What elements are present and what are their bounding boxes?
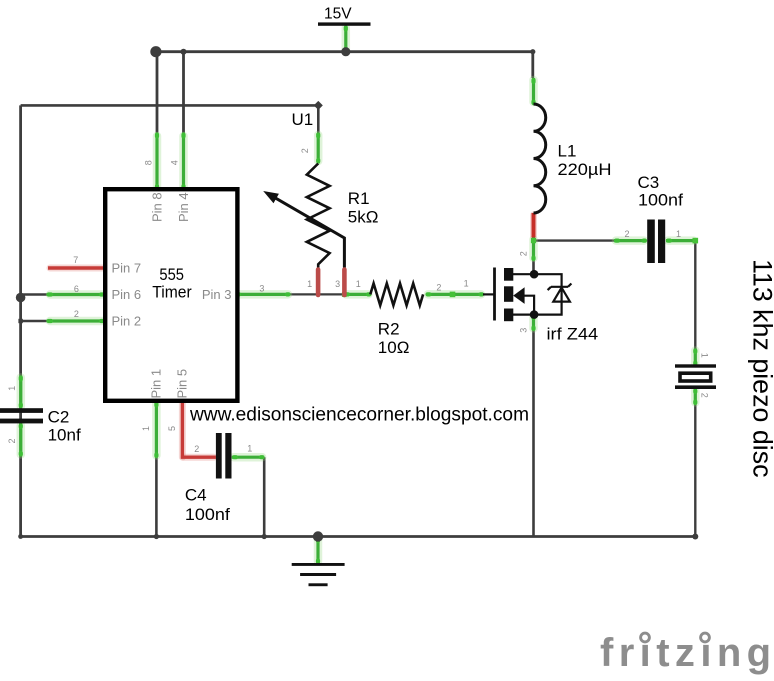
junction dot C4 bottom — [262, 534, 267, 539]
svg-text:fritzing: fritzing — [600, 631, 774, 675]
svg-text:1: 1 — [700, 353, 710, 358]
wire bottom ground bus — [21, 535, 696, 538]
svg-text:1: 1 — [307, 279, 312, 289]
wire number 1 (piezo, rotated) — [700, 353, 710, 358]
svg-text:2: 2 — [436, 283, 441, 293]
green junction square R2-gate — [450, 292, 456, 298]
wire number 4 (rotated) — [169, 160, 179, 165]
wire top bus from pin8 junction to L1 corner — [156, 52, 533, 78]
wire number 1 (C3 right) — [676, 229, 681, 239]
svg-text:10Ω: 10Ω — [378, 338, 410, 357]
svg-text:10nf: 10nf — [48, 426, 81, 445]
pin label Pin 5 — [175, 369, 190, 399]
wire number 2 (C4 left) — [194, 444, 199, 454]
svg-text:100nf: 100nf — [185, 505, 230, 524]
green junction square pot pin3 — [342, 292, 347, 297]
wire left vertical rail — [19, 105, 22, 536]
ground symbol — [292, 563, 345, 586]
wire MOSFET source lower vertical — [532, 329, 535, 537]
svg-text:C4: C4 — [185, 486, 207, 505]
svg-text:15V: 15V — [324, 5, 352, 22]
svg-text:4: 4 — [169, 160, 179, 165]
junction dot ground — [313, 531, 323, 541]
svg-text:2: 2 — [700, 393, 710, 398]
wire pin 6 tap — [21, 293, 48, 295]
svg-text:7: 7 — [73, 255, 78, 265]
wire green C3 left — [614, 239, 646, 242]
wire number 1 (C2 top, rotated) — [7, 386, 17, 391]
svg-text:L1: L1 — [558, 142, 577, 161]
C3 value label — [638, 173, 684, 210]
wire pin 4 vertical drop — [182, 52, 185, 134]
wire green C3 right — [666, 239, 695, 242]
svg-text:555: 555 — [159, 265, 184, 284]
pin label Pin 8 — [149, 192, 164, 222]
svg-text:1: 1 — [356, 279, 361, 289]
svg-text:2: 2 — [624, 229, 629, 239]
wire number 3 (pot pin3) — [335, 279, 340, 289]
svg-text:113 khz piezo disc: 113 khz piezo disc — [748, 259, 774, 478]
MOSFET Q1 body diode (zener) — [548, 284, 572, 302]
wire number 5 (555 pin5, rotated) — [167, 426, 177, 431]
wire drain upper dark segment — [532, 260, 535, 272]
C2 value label — [48, 408, 81, 445]
wire number 1 (C4 right) — [247, 444, 252, 454]
power symbol 15V — [318, 5, 371, 26]
svg-text:Pin 8: Pin 8 — [149, 192, 164, 222]
MOSFET Q1 label — [547, 325, 599, 344]
pin label Pin 2 — [112, 314, 142, 329]
svg-text:1: 1 — [7, 386, 17, 391]
svg-text:5: 5 — [167, 426, 177, 431]
wire green U1 pin 2 — [317, 133, 320, 164]
svg-text:R2: R2 — [378, 320, 400, 339]
svg-text:2: 2 — [194, 444, 199, 454]
junction dot bottom-left corner — [18, 534, 23, 539]
wire number 2 (C3 left) — [624, 229, 629, 239]
svg-text:www.edisonsciencecorner.blogsp: www.edisonsciencecorner.blogspot.com — [189, 405, 529, 426]
green junction square C3 corner — [693, 238, 699, 244]
wire number 7 — [73, 255, 78, 265]
svg-text:Timer: Timer — [152, 283, 192, 302]
wire number 3 (pin3) — [259, 284, 264, 294]
MOSFET Q1 drain node dot — [530, 270, 539, 279]
wire pin3 to pot middle segment — [290, 293, 347, 295]
wire number 1 (pot pin1) — [307, 279, 312, 289]
pin label Pin 1 — [149, 369, 164, 399]
piezo disc crystal symbol — [675, 364, 716, 389]
wire green R2 to gate — [426, 293, 483, 296]
potentiometer R1 pin1 red stub — [316, 270, 321, 296]
svg-text:3: 3 — [335, 279, 340, 289]
svg-text:U1: U1 — [292, 110, 314, 129]
wire pin 2 tap — [21, 320, 48, 322]
potentiometer R1 pin3 red stub — [342, 270, 347, 296]
junction dot U1 corner — [314, 101, 323, 110]
wire green pin 6 — [48, 293, 105, 296]
wire green drain — [532, 238, 535, 261]
fritzing watermark — [600, 631, 774, 675]
junction dot 15V — [341, 47, 350, 56]
wire C4 right vertical — [263, 457, 266, 536]
resistor R2 — [370, 283, 423, 305]
red wire halos — [50, 215, 534, 457]
wire pin1 lower vertical — [155, 454, 158, 537]
wire number 2 (drain, rotated) — [518, 251, 528, 256]
MOSFET Q1 gate bar — [493, 268, 496, 321]
inductor L1 — [534, 104, 546, 213]
potentiometer R1 zigzag body — [307, 164, 330, 268]
svg-text:6: 6 — [74, 284, 79, 294]
svg-text:3: 3 — [259, 284, 264, 294]
MOSFET Q1 channel blocks — [504, 268, 513, 321]
wire green pin 8 — [155, 134, 158, 190]
wire green 555 pin 1 — [155, 401, 158, 458]
wire green pot to R2 — [344, 293, 371, 296]
capacitor C3 plates — [647, 220, 665, 264]
wire green piezo pin 2 — [694, 389, 697, 405]
svg-text:1: 1 — [141, 426, 151, 431]
junction dot left rail pin6 — [16, 293, 26, 303]
555 timer label — [152, 265, 192, 301]
MOSFET Q1 drain lead — [513, 273, 534, 275]
wire green pin 2 — [48, 319, 105, 322]
wire green C2 pin 1 — [19, 376, 22, 409]
wire red L1 bottom — [532, 213, 536, 238]
wire number 1 (R2 pin1) — [356, 279, 361, 289]
555 timer IC body — [105, 189, 237, 401]
svg-text:Pin 6: Pin 6 — [112, 287, 142, 302]
svg-text:C3: C3 — [638, 173, 660, 192]
svg-text:Pin 7: Pin 7 — [112, 261, 142, 276]
piezo disc label (rotated) — [748, 259, 774, 478]
svg-text:Pin 2: Pin 2 — [112, 314, 142, 329]
wire number 2 (piezo, rotated) — [700, 393, 710, 398]
svg-text:C2: C2 — [48, 408, 70, 427]
pin label Pin 7 — [112, 261, 142, 276]
wire right vertical lower (piezo to bottom) — [694, 403, 696, 537]
green junction square L1-drain — [531, 238, 536, 243]
wire drain to C3 horizontal — [534, 239, 615, 241]
R1 value label — [348, 189, 379, 226]
wire green piezo pin 1 — [694, 349, 697, 366]
wire green source — [532, 315, 535, 331]
svg-text:1: 1 — [676, 229, 681, 239]
svg-text:irf Z44: irf Z44 — [547, 325, 599, 344]
wire green 15V stub — [344, 26, 347, 51]
svg-text:1: 1 — [464, 279, 469, 289]
pin label Pin 4 — [176, 192, 191, 222]
pin label Pin 3 — [202, 287, 232, 302]
wire green C4 right — [232, 456, 264, 459]
svg-text:2: 2 — [518, 251, 528, 256]
R2 value label — [378, 320, 410, 358]
wire number 1 (gate) — [464, 279, 469, 289]
svg-text:220µH: 220µH — [558, 160, 612, 179]
capacitor C2 plates — [0, 408, 43, 423]
wire number 2 (U1 pin2, rotated) — [300, 148, 310, 153]
wire number 8 (rotated) — [144, 160, 154, 165]
MOSFET Q1 body diode branch — [534, 274, 562, 314]
wire number 2 (pin2) — [74, 309, 79, 319]
C4 value label — [185, 486, 230, 525]
junction dot pin8 top bus — [150, 46, 161, 57]
wire number 1 (555 pin1, rotated) — [141, 426, 151, 431]
pin label Pin 6 — [112, 287, 142, 302]
MOSFET Q1 gate lead — [483, 293, 495, 295]
svg-text:1: 1 — [247, 444, 252, 454]
svg-text:Pin 5: Pin 5 — [175, 369, 190, 399]
L1 value label — [558, 142, 612, 180]
wire red 555 pin 5 to C4 — [182, 401, 216, 457]
wire right vertical upper (C3 to piezo) — [694, 241, 696, 349]
wire number 2 (R2 pin2) — [436, 283, 441, 293]
svg-text:Pin 4: Pin 4 — [176, 192, 191, 222]
wire green ground stub — [316, 537, 319, 564]
svg-text:2: 2 — [7, 438, 17, 443]
svg-text:R1: R1 — [348, 189, 370, 208]
website caption — [189, 405, 529, 426]
wire second bus to U1 — [21, 105, 319, 133]
junction dot left rail pin2 — [18, 319, 22, 323]
svg-text:2: 2 — [300, 148, 310, 153]
wire pin 8 vertical drop — [156, 52, 159, 134]
junction dot pin4 top bus — [181, 49, 187, 55]
wire number 3 (source, rotated) — [518, 328, 528, 333]
wire green L1 top — [532, 78, 535, 104]
junction dot L1 corner — [530, 49, 535, 54]
U1 reference label — [292, 110, 314, 129]
wire number 6 — [74, 284, 79, 294]
wire green pin 4 — [182, 134, 185, 190]
MOSFET Q1 body arrow — [513, 287, 534, 314]
svg-text:3: 3 — [518, 328, 528, 333]
svg-text:8: 8 — [144, 160, 154, 165]
wire number 2 (C2 bottom, rotated) — [7, 438, 17, 443]
svg-text:5kΩ: 5kΩ — [348, 207, 379, 226]
potentiometer R1 wiper arrow — [263, 191, 344, 268]
MOSFET Q1 source lead — [513, 314, 534, 316]
wire green pin 3 — [236, 293, 291, 296]
green wire halos — [21, 28, 696, 562]
svg-text:Pin 1: Pin 1 — [149, 369, 164, 399]
junction dot pin1 bottom — [154, 534, 159, 539]
wire green C2 pin 2 — [19, 423, 22, 456]
svg-text:100nf: 100nf — [638, 191, 683, 210]
junction dot bottom-right corner — [692, 534, 698, 540]
green junction glow tips — [21, 28, 696, 563]
MOSFET Q1 source node dot — [530, 310, 539, 319]
wire red 555 pin 7 — [48, 266, 105, 269]
svg-text:Pin 3: Pin 3 — [202, 287, 232, 302]
svg-text:2: 2 — [74, 309, 79, 319]
capacitor C4 plates — [216, 433, 232, 479]
